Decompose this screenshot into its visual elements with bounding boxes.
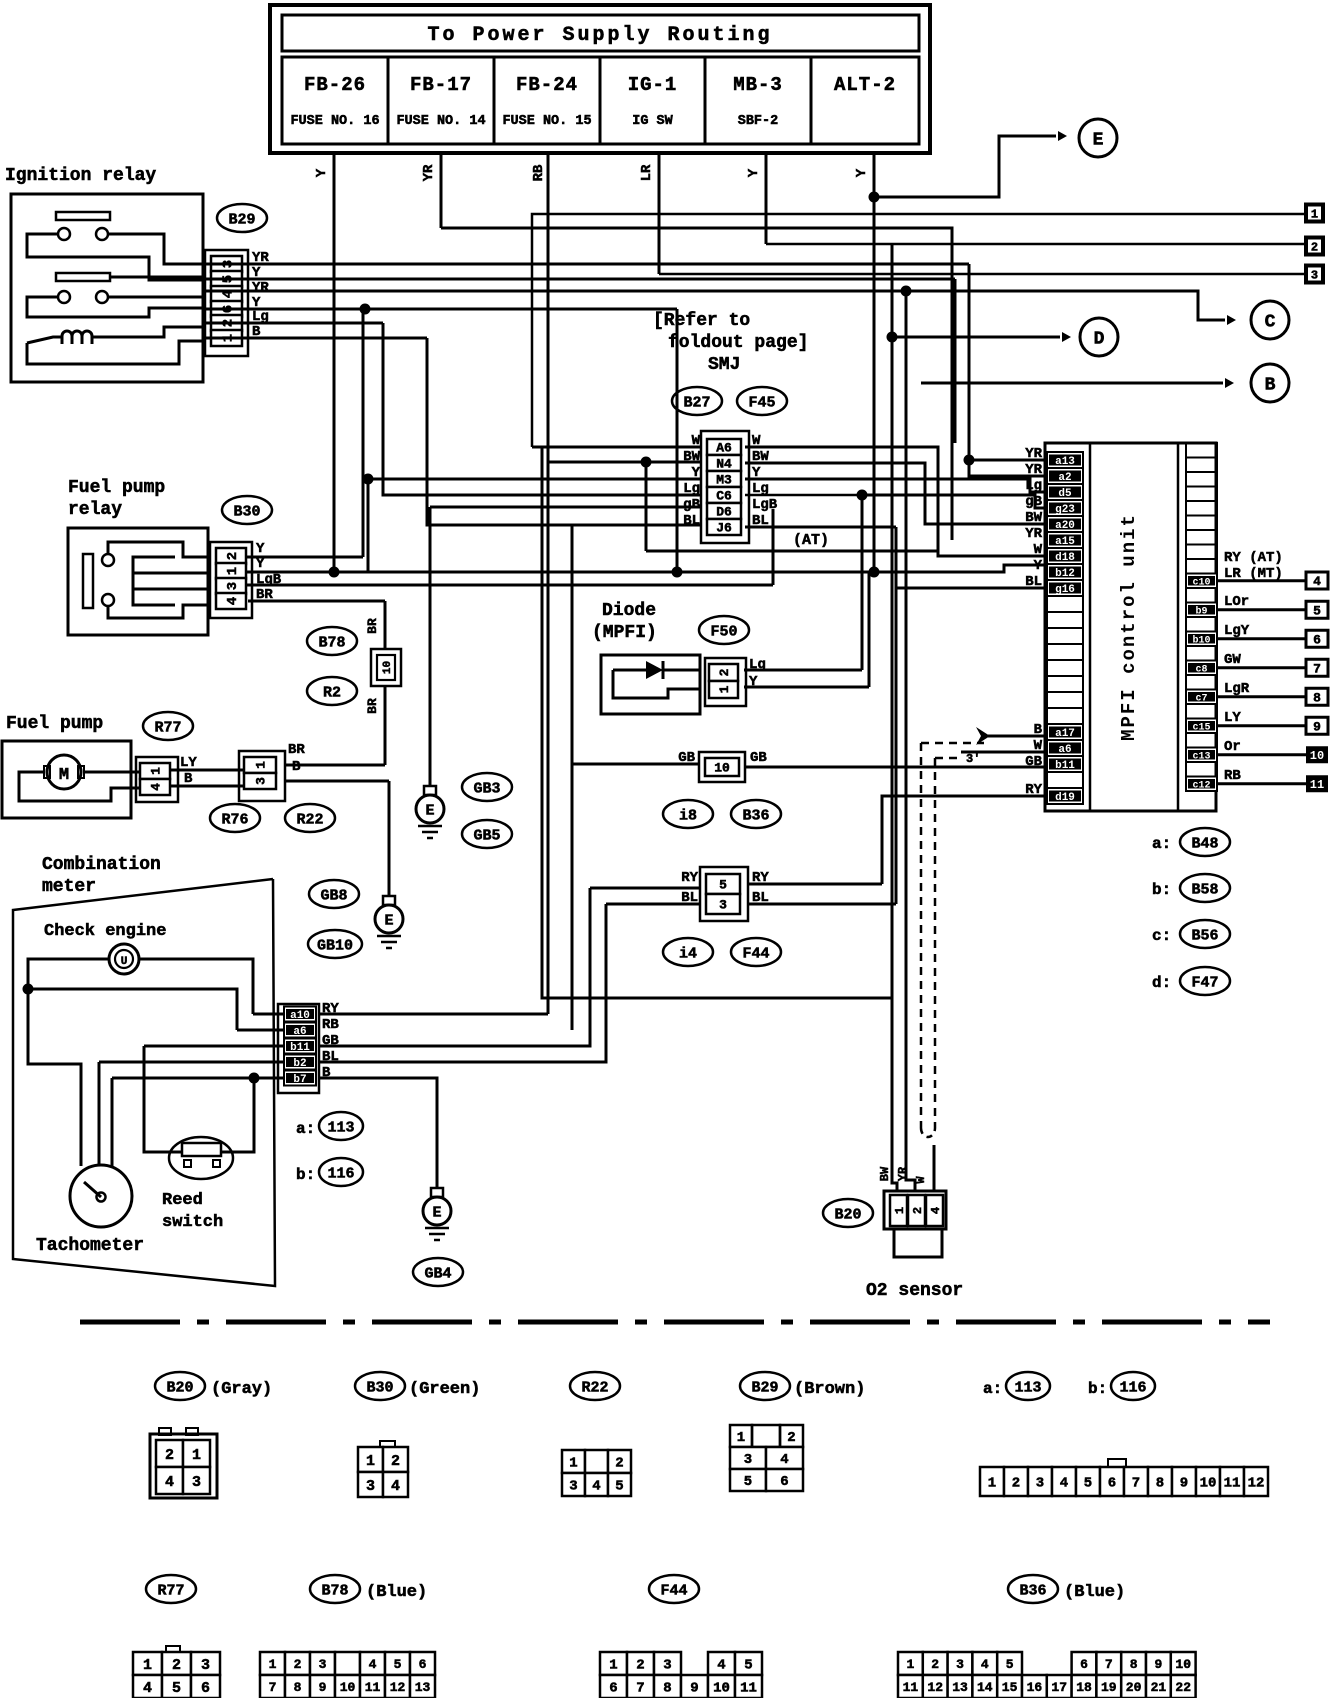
- svg-text:a2: a2: [1058, 472, 1071, 484]
- svg-text:3: 3: [663, 1658, 671, 1674]
- svg-text:B56: B56: [1191, 927, 1218, 944]
- svg-text:3: 3: [319, 1657, 327, 1672]
- svg-text:b2: b2: [293, 1058, 306, 1070]
- svg-text:c:: c:: [1152, 927, 1171, 945]
- svg-text:GB10: GB10: [317, 937, 353, 954]
- svg-text:MB-3: MB-3: [733, 74, 783, 96]
- svg-text:B58: B58: [1191, 881, 1218, 898]
- svg-text:LY: LY: [1224, 710, 1241, 726]
- svg-text:1: 1: [269, 1657, 277, 1672]
- svg-text:6: 6: [419, 1657, 427, 1672]
- svg-text:BR: BR: [288, 742, 305, 758]
- svg-text:3: 3: [1311, 269, 1318, 283]
- svg-text:J6: J6: [716, 521, 732, 536]
- svg-text:Diode: Diode: [602, 601, 656, 621]
- svg-text:7: 7: [1132, 1476, 1140, 1492]
- svg-text:C: C: [1265, 313, 1276, 333]
- svg-text:c10: c10: [1192, 577, 1210, 588]
- svg-text:BL: BL: [683, 513, 700, 529]
- svg-text:GB4: GB4: [424, 1265, 451, 1282]
- svg-text:2: 2: [931, 1657, 939, 1672]
- svg-text:B36: B36: [742, 807, 769, 824]
- svg-text:1: 1: [225, 567, 241, 575]
- svg-text:6: 6: [609, 1681, 617, 1697]
- svg-text:Check engine: Check engine: [44, 922, 166, 941]
- svg-text:b:: b:: [1152, 881, 1171, 899]
- svg-text:c13: c13: [1192, 751, 1210, 762]
- svg-text:switch: switch: [162, 1213, 223, 1232]
- svg-text:Ignition relay: Ignition relay: [5, 166, 156, 186]
- svg-text:19: 19: [1101, 1680, 1117, 1695]
- svg-text:E: E: [425, 803, 434, 820]
- svg-text:d:: d:: [1152, 974, 1171, 992]
- svg-text:i4: i4: [679, 945, 697, 962]
- svg-text:O2 sensor: O2 sensor: [866, 1281, 963, 1301]
- svg-text:YR: YR: [1025, 526, 1042, 542]
- svg-text:116: 116: [1119, 1379, 1146, 1396]
- svg-text:6: 6: [1080, 1657, 1088, 1672]
- svg-text:F45: F45: [748, 394, 775, 411]
- svg-text:SMJ: SMJ: [708, 355, 740, 375]
- svg-text:Tachometer: Tachometer: [36, 1236, 144, 1256]
- svg-text:a13: a13: [1055, 456, 1075, 468]
- svg-text:YR: YR: [252, 280, 269, 296]
- svg-text:R2: R2: [323, 684, 341, 701]
- svg-text:3: 3: [254, 777, 269, 785]
- svg-text:a:: a:: [296, 1120, 315, 1138]
- svg-text:3: 3: [569, 1479, 577, 1495]
- svg-text:3': 3': [966, 752, 980, 766]
- svg-text:Y: Y: [256, 541, 265, 557]
- svg-text:2: 2: [615, 1456, 623, 1472]
- svg-text:8: 8: [1313, 690, 1321, 705]
- svg-text:8: 8: [294, 1680, 302, 1695]
- svg-text:GB3: GB3: [473, 780, 500, 797]
- svg-text:2: 2: [165, 1447, 174, 1464]
- svg-text:R77: R77: [157, 1582, 184, 1599]
- svg-text:1: 1: [366, 1453, 375, 1470]
- svg-text:BR: BR: [365, 618, 380, 634]
- svg-text:11: 11: [1224, 1476, 1241, 1492]
- svg-text:6: 6: [1313, 632, 1321, 647]
- svg-text:5: 5: [744, 1474, 752, 1490]
- svg-text:116: 116: [327, 1165, 354, 1182]
- svg-text:Fuel pump: Fuel pump: [6, 714, 103, 734]
- svg-text:4: 4: [369, 1657, 377, 1672]
- svg-text:12: 12: [927, 1680, 943, 1695]
- svg-text:10: 10: [382, 661, 394, 674]
- svg-text:B78: B78: [321, 1582, 348, 1599]
- svg-text:D6: D6: [716, 505, 732, 520]
- svg-text:1: 1: [192, 1447, 201, 1464]
- svg-text:E: E: [1093, 131, 1104, 151]
- svg-text:E: E: [384, 913, 393, 930]
- svg-text:12: 12: [390, 1680, 406, 1695]
- svg-text:1: 1: [717, 685, 732, 693]
- svg-text:(Gray): (Gray): [211, 1380, 272, 1399]
- svg-text:U: U: [121, 956, 128, 968]
- svg-text:5: 5: [172, 1680, 181, 1697]
- svg-text:16: 16: [1027, 1680, 1043, 1695]
- svg-text:10: 10: [1175, 1657, 1191, 1672]
- svg-text:B20: B20: [166, 1379, 193, 1396]
- svg-text:6: 6: [1108, 1476, 1116, 1492]
- svg-text:b11: b11: [290, 1042, 310, 1054]
- svg-text:FB-26: FB-26: [304, 74, 366, 96]
- svg-text:3: 3: [1036, 1476, 1044, 1492]
- svg-text:2: 2: [787, 1430, 795, 1446]
- svg-text:To Power Supply Routing: To Power Supply Routing: [427, 24, 772, 47]
- svg-text:4: 4: [165, 1474, 174, 1491]
- svg-text:6: 6: [201, 1680, 210, 1697]
- svg-text:F44: F44: [742, 945, 769, 962]
- svg-text:Y: Y: [746, 168, 762, 177]
- svg-text:b12: b12: [1055, 568, 1075, 580]
- svg-text:ALT-2: ALT-2: [834, 74, 896, 96]
- svg-text:E: E: [432, 1205, 441, 1222]
- svg-text:2: 2: [225, 552, 241, 560]
- svg-text:Y: Y: [854, 168, 870, 177]
- svg-text:FB-24: FB-24: [516, 74, 578, 96]
- svg-text:c15: c15: [1192, 722, 1210, 733]
- svg-text:IG-1: IG-1: [628, 74, 678, 96]
- svg-text:5: 5: [615, 1479, 623, 1495]
- svg-text:Combination: Combination: [42, 855, 161, 875]
- svg-text:4: 4: [1313, 574, 1321, 589]
- svg-text:LOr: LOr: [1224, 594, 1249, 610]
- svg-text:GB8: GB8: [320, 887, 347, 904]
- svg-text:C6: C6: [716, 489, 732, 504]
- svg-text:[Refer to: [Refer to: [653, 311, 750, 331]
- svg-text:21: 21: [1151, 1680, 1167, 1695]
- svg-text:13: 13: [952, 1680, 968, 1695]
- svg-text:1: 1: [254, 761, 269, 769]
- svg-text:1: 1: [609, 1658, 617, 1674]
- svg-text:RY: RY: [681, 870, 698, 886]
- svg-text:10: 10: [1200, 1476, 1217, 1492]
- svg-text:R77: R77: [154, 719, 181, 736]
- svg-text:3: 3: [225, 582, 241, 590]
- svg-text:GB5: GB5: [473, 827, 500, 844]
- svg-text:LR: LR: [639, 164, 655, 181]
- svg-text:9: 9: [1180, 1476, 1188, 1492]
- svg-text:2: 2: [294, 1657, 302, 1672]
- svg-text:b:: b:: [296, 1166, 315, 1184]
- svg-text:15: 15: [1002, 1680, 1018, 1695]
- svg-text:11: 11: [365, 1680, 381, 1695]
- svg-text:(Brown): (Brown): [794, 1380, 865, 1399]
- svg-text:c7: c7: [1195, 693, 1207, 704]
- svg-text:(Blue): (Blue): [1064, 1583, 1125, 1602]
- svg-text:d18: d18: [1055, 552, 1075, 564]
- svg-text:10: 10: [1310, 749, 1324, 763]
- svg-text:2: 2: [1311, 241, 1318, 255]
- svg-text:BR: BR: [365, 698, 380, 714]
- svg-text:c12: c12: [1192, 780, 1210, 791]
- svg-text:7: 7: [1313, 661, 1321, 676]
- svg-text:a6: a6: [293, 1026, 306, 1038]
- svg-text:11: 11: [1310, 778, 1324, 792]
- svg-text:2: 2: [717, 668, 732, 676]
- svg-text:17: 17: [1051, 1680, 1067, 1695]
- svg-text:foldout page]: foldout page]: [668, 333, 808, 353]
- svg-text:FUSE NO. 15: FUSE NO. 15: [502, 114, 591, 129]
- svg-text:1: 1: [1311, 208, 1318, 222]
- svg-text:B48: B48: [1191, 835, 1218, 852]
- svg-text:a6: a6: [1058, 744, 1071, 756]
- svg-text:R76: R76: [221, 811, 248, 828]
- svg-text:Or: Or: [1224, 739, 1241, 755]
- svg-text:8: 8: [1130, 1657, 1138, 1672]
- svg-text:9: 9: [319, 1680, 327, 1695]
- svg-text:g16: g16: [1055, 584, 1075, 596]
- svg-text:d5: d5: [1058, 488, 1072, 500]
- svg-text:Fuel pump: Fuel pump: [68, 478, 165, 498]
- svg-text:a17: a17: [1055, 728, 1075, 740]
- svg-text:2: 2: [636, 1658, 644, 1674]
- svg-text:a:: a:: [983, 1380, 1002, 1398]
- svg-text:M3: M3: [716, 473, 732, 488]
- svg-text:a15: a15: [1055, 536, 1075, 548]
- svg-text:LR (MT): LR (MT): [1224, 566, 1283, 582]
- svg-text:2: 2: [1012, 1476, 1020, 1492]
- svg-text:LgR: LgR: [1224, 681, 1250, 697]
- svg-text:5: 5: [394, 1657, 402, 1672]
- svg-text:5: 5: [744, 1658, 752, 1674]
- svg-text:RB: RB: [1224, 768, 1241, 784]
- svg-text:(AT): (AT): [793, 532, 829, 549]
- svg-text:B36: B36: [1019, 1582, 1046, 1599]
- svg-text:4: 4: [391, 1478, 400, 1495]
- svg-text:3: 3: [192, 1474, 201, 1491]
- svg-text:meter: meter: [42, 877, 96, 897]
- svg-text:A6: A6: [716, 441, 732, 456]
- svg-text:relay: relay: [68, 500, 122, 520]
- svg-text:5: 5: [1313, 603, 1321, 618]
- svg-text:B20: B20: [834, 1206, 861, 1223]
- svg-text:a:: a:: [1152, 835, 1171, 853]
- svg-text:1: 1: [149, 767, 164, 775]
- svg-text:2: 2: [911, 1207, 925, 1214]
- svg-text:B30: B30: [366, 1379, 393, 1396]
- svg-text:3: 3: [744, 1452, 752, 1468]
- svg-text:1: 1: [988, 1476, 996, 1492]
- svg-text:4: 4: [225, 597, 241, 605]
- svg-text:LgB: LgB: [675, 497, 701, 513]
- svg-text:13: 13: [415, 1680, 431, 1695]
- svg-text:B29: B29: [751, 1379, 778, 1396]
- svg-text:SBF-2: SBF-2: [738, 114, 779, 129]
- svg-text:RB: RB: [531, 164, 547, 181]
- svg-text:8: 8: [663, 1681, 671, 1697]
- svg-text:F50: F50: [710, 623, 737, 640]
- svg-text:10: 10: [340, 1680, 356, 1695]
- svg-text:c8: c8: [1195, 664, 1207, 675]
- svg-text:(Green): (Green): [409, 1380, 480, 1399]
- svg-text:9: 9: [690, 1681, 698, 1697]
- svg-text:2: 2: [172, 1657, 181, 1674]
- svg-text:9: 9: [1154, 1657, 1162, 1672]
- svg-text:Reed: Reed: [162, 1191, 203, 1210]
- svg-text:6: 6: [780, 1474, 788, 1490]
- svg-text:a10: a10: [290, 1010, 310, 1022]
- svg-text:FUSE NO. 16: FUSE NO. 16: [290, 114, 379, 129]
- svg-text:B: B: [292, 759, 301, 775]
- svg-text:9: 9: [1313, 719, 1321, 734]
- svg-text:5: 5: [719, 878, 727, 893]
- svg-text:B: B: [1265, 376, 1276, 396]
- svg-text:B27: B27: [683, 394, 710, 411]
- svg-text:LgY: LgY: [1224, 623, 1250, 639]
- svg-text:3: 3: [719, 898, 727, 913]
- svg-text:B78: B78: [318, 634, 345, 651]
- svg-text:IG SW: IG SW: [632, 114, 673, 129]
- svg-text:10: 10: [713, 1681, 730, 1697]
- svg-text:4: 4: [929, 1207, 943, 1214]
- svg-text:Y: Y: [314, 168, 330, 177]
- svg-text:12: 12: [1248, 1476, 1265, 1492]
- svg-text:b11: b11: [1055, 760, 1075, 772]
- svg-text:1: 1: [906, 1657, 914, 1672]
- svg-text:YR: YR: [421, 164, 437, 181]
- svg-text:B29: B29: [228, 211, 255, 228]
- svg-text:RB: RB: [322, 1017, 339, 1033]
- svg-text:4: 4: [592, 1479, 600, 1495]
- svg-text:113: 113: [327, 1119, 354, 1136]
- svg-text:d19: d19: [1055, 792, 1075, 804]
- svg-text:3: 3: [366, 1478, 375, 1495]
- svg-text:11: 11: [740, 1681, 757, 1697]
- svg-text:20: 20: [1126, 1680, 1142, 1695]
- svg-text:4: 4: [1060, 1476, 1068, 1492]
- svg-text:(MPFI): (MPFI): [592, 623, 657, 643]
- svg-text:5: 5: [1084, 1476, 1092, 1492]
- svg-text:MPFI control unit: MPFI control unit: [1118, 513, 1140, 741]
- svg-text:N4: N4: [716, 457, 732, 472]
- svg-text:1: 1: [143, 1657, 152, 1674]
- svg-text:BW: BW: [878, 1166, 892, 1181]
- svg-text:10: 10: [714, 761, 730, 776]
- svg-text:F44: F44: [660, 1582, 687, 1599]
- svg-text:(Blue): (Blue): [366, 1583, 427, 1602]
- svg-text:3: 3: [956, 1657, 964, 1672]
- svg-text:1: 1: [893, 1207, 907, 1214]
- svg-text:GB: GB: [750, 750, 767, 766]
- svg-text:R22: R22: [296, 811, 323, 828]
- svg-text:113: 113: [1014, 1379, 1041, 1396]
- svg-text:R22: R22: [581, 1379, 608, 1396]
- svg-text:1: 1: [569, 1456, 577, 1472]
- svg-text:7: 7: [269, 1680, 277, 1695]
- svg-text:RY (AT): RY (AT): [1224, 550, 1283, 566]
- svg-text:2: 2: [391, 1453, 400, 1470]
- svg-text:b10: b10: [1192, 634, 1210, 646]
- svg-text:4: 4: [981, 1657, 989, 1672]
- svg-text:7: 7: [636, 1681, 644, 1697]
- svg-text:14: 14: [977, 1680, 993, 1695]
- svg-text:i8: i8: [679, 807, 697, 824]
- svg-text:3: 3: [201, 1657, 210, 1674]
- svg-text:5: 5: [1006, 1657, 1014, 1672]
- svg-text:7: 7: [1105, 1657, 1113, 1672]
- svg-text:GW: GW: [1224, 652, 1241, 668]
- svg-text:4: 4: [717, 1658, 725, 1674]
- svg-text:M: M: [59, 766, 69, 785]
- svg-text:4: 4: [149, 783, 164, 791]
- svg-text:b7: b7: [293, 1074, 306, 1086]
- svg-text:4: 4: [143, 1680, 152, 1697]
- svg-text:18: 18: [1076, 1680, 1092, 1695]
- svg-text:B30: B30: [233, 503, 260, 520]
- svg-text:11: 11: [903, 1680, 919, 1695]
- svg-text:8: 8: [1156, 1476, 1164, 1492]
- svg-text:g23: g23: [1055, 504, 1075, 516]
- svg-text:b:: b:: [1088, 1380, 1107, 1398]
- svg-text:22: 22: [1175, 1680, 1191, 1695]
- svg-text:4: 4: [780, 1452, 788, 1468]
- svg-text:a20: a20: [1055, 520, 1075, 532]
- svg-text:F47: F47: [1191, 974, 1218, 991]
- svg-text:D: D: [1094, 330, 1105, 350]
- svg-text:FUSE NO. 14: FUSE NO. 14: [396, 114, 485, 129]
- svg-text:b9: b9: [1195, 605, 1207, 617]
- svg-text:FB-17: FB-17: [410, 74, 472, 96]
- svg-text:1: 1: [737, 1430, 745, 1446]
